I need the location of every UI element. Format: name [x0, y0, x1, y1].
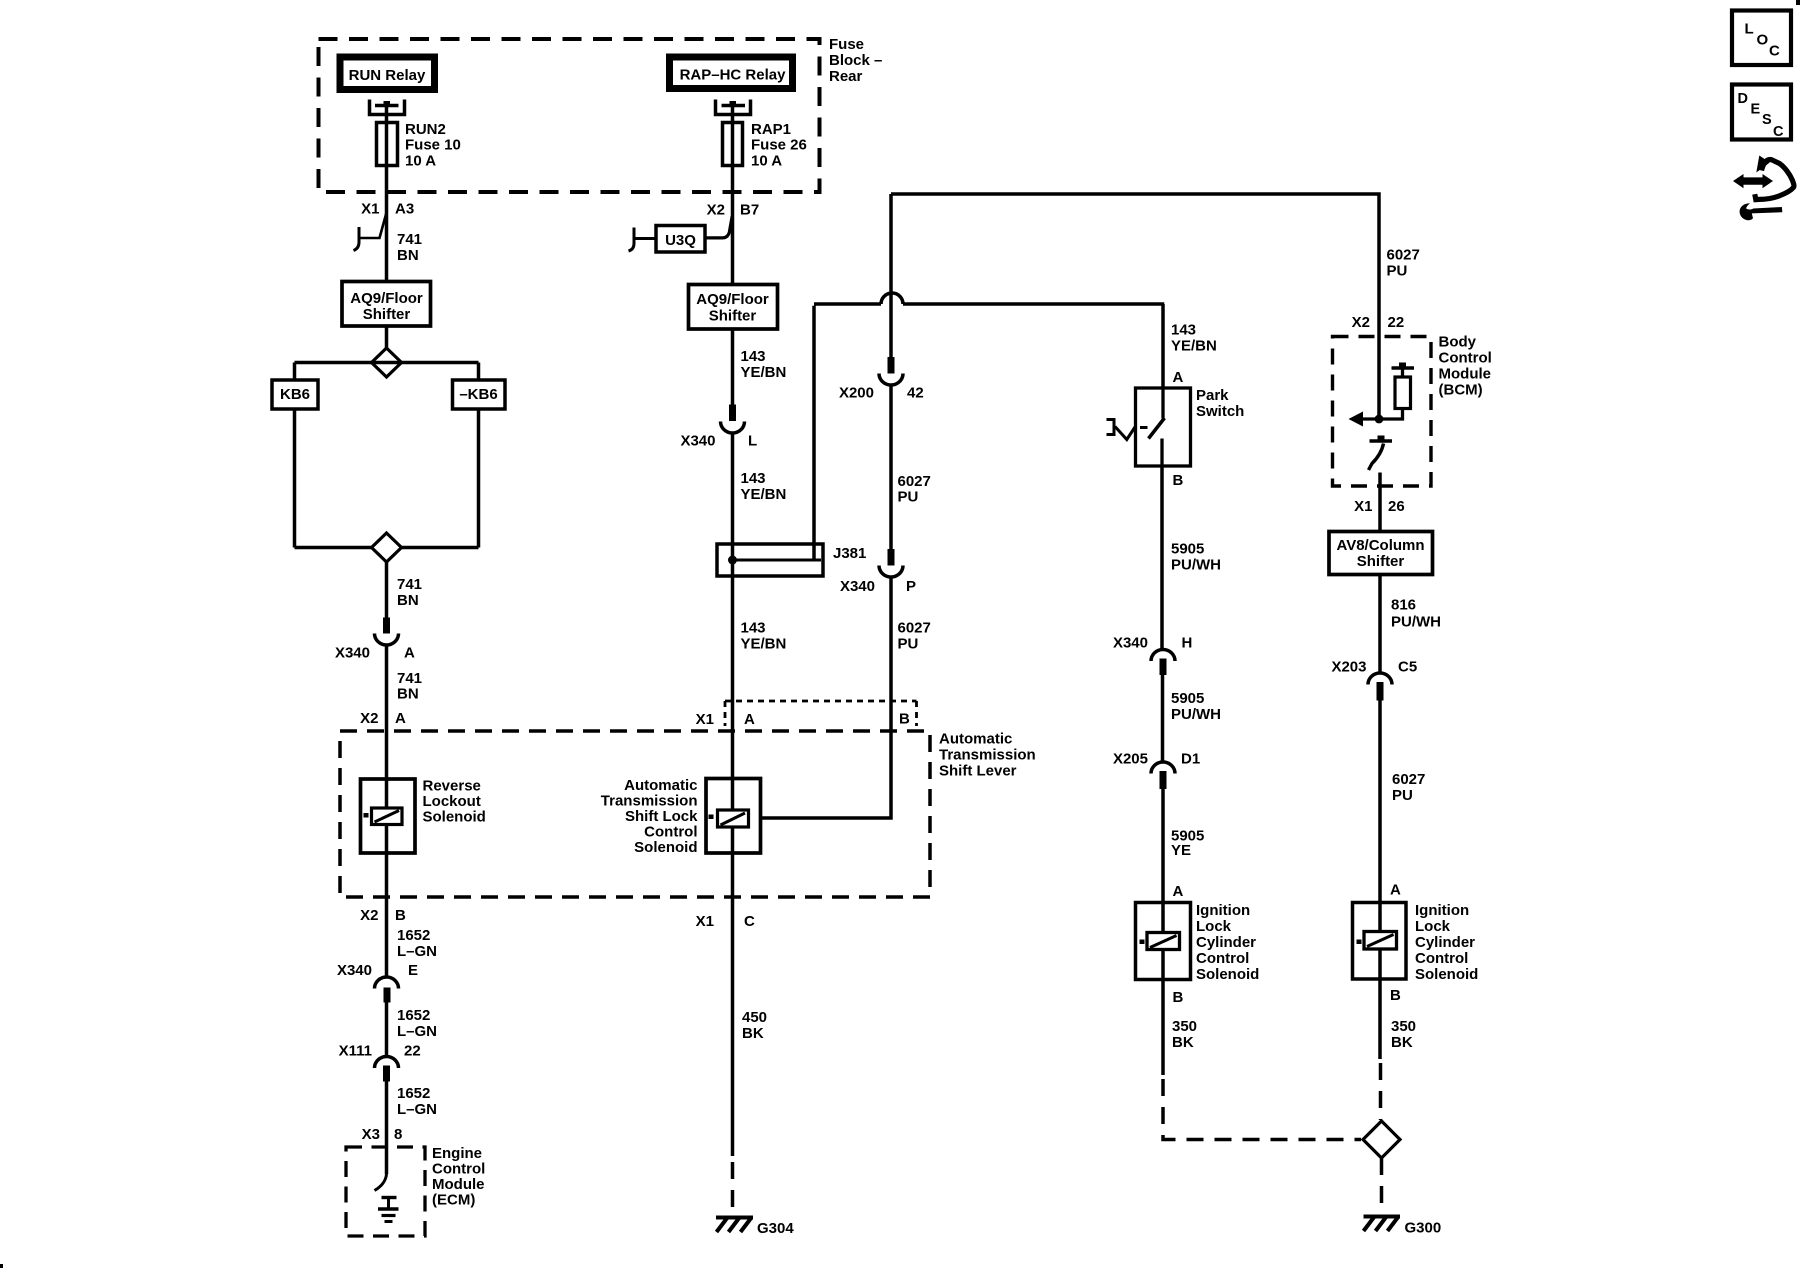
- svg-text:X340: X340: [335, 645, 370, 662]
- svg-text:350: 350: [1172, 1018, 1197, 1035]
- in-line connector stub with hook (lead off RUN2 feed): [354, 214, 387, 251]
- wire: X111 to ECM: [385, 1082, 389, 1175]
- svg-text:Engine: Engine: [432, 1145, 482, 1162]
- svg-text:Control: Control: [432, 1161, 485, 1178]
- svg-text:X340: X340: [840, 578, 875, 595]
- svg-text:B7: B7: [740, 202, 759, 219]
- in-line connector X340 pin P: [840, 549, 916, 595]
- LOC navigation icon: [1732, 11, 1791, 66]
- wire label 5905 PU/WH (lower): [1171, 690, 1221, 723]
- svg-text:C: C: [1769, 43, 1780, 60]
- svg-text:S: S: [1762, 112, 1772, 128]
- svg-text:D1: D1: [1181, 751, 1200, 768]
- wiring navigation icon (arrows and wrench): [1733, 156, 1794, 221]
- page corner marks: [1796, 0, 1800, 5]
- svg-text:X340: X340: [337, 962, 372, 979]
- wire label 741 BN (upper): [397, 231, 422, 264]
- wire label 350 BK (column): [1391, 1018, 1416, 1051]
- svg-text:O: O: [1757, 32, 1769, 49]
- svg-text:816: 816: [1391, 597, 1416, 614]
- DESC navigation icon: [1732, 85, 1791, 141]
- wire crossover hop: [881, 293, 903, 304]
- svg-text:BN: BN: [397, 686, 419, 703]
- wire label 6027 PU (BCM feed): [1387, 247, 1420, 280]
- BCM internal arrow (signal out): [1349, 412, 1380, 427]
- wire label 5905 YE: [1171, 828, 1204, 860]
- svg-text:Shifter: Shifter: [363, 306, 411, 323]
- park switch actuator linkage: [1107, 420, 1136, 440]
- svg-text:YE/BN: YE/BN: [741, 486, 787, 503]
- svg-text:PU/WH: PU/WH: [1171, 706, 1221, 723]
- svg-text:RAP–HC Relay: RAP–HC Relay: [680, 67, 787, 84]
- svg-text:E: E: [1751, 102, 1761, 118]
- svg-text:10 A: 10 A: [751, 153, 782, 170]
- connector X2 pin A labels: [360, 710, 406, 727]
- svg-text:Body: Body: [1439, 334, 1477, 351]
- svg-text:AQ9/Floor: AQ9/Floor: [350, 290, 423, 307]
- wire label 6027 PU (lower col3): [898, 620, 931, 653]
- svg-text:X2: X2: [707, 202, 725, 219]
- svg-text:350: 350: [1391, 1018, 1416, 1035]
- svg-text:A: A: [744, 711, 755, 728]
- svg-text:PU: PU: [898, 636, 919, 653]
- wire label 5905 PU/WH (upper): [1171, 541, 1221, 574]
- wire: X340 L to shift lock solenoid: [731, 433, 735, 779]
- svg-text:YE: YE: [1171, 842, 1191, 859]
- svg-text:BN: BN: [397, 247, 419, 264]
- svg-text:450: 450: [742, 1009, 767, 1026]
- svg-text:X200: X200: [839, 385, 874, 402]
- wire label 741 BN (lower): [397, 670, 422, 703]
- svg-text:143: 143: [741, 620, 766, 637]
- svg-text:Automatic: Automatic: [939, 731, 1012, 748]
- svg-text:741: 741: [397, 576, 422, 593]
- svg-text:Cylinder: Cylinder: [1196, 934, 1256, 951]
- svg-text:X2: X2: [1352, 314, 1370, 331]
- connector X2 pin B labels: [360, 907, 406, 924]
- svg-text:143: 143: [741, 470, 766, 487]
- svg-text:X111: X111: [339, 1043, 372, 1060]
- svg-text:Control: Control: [1439, 350, 1492, 367]
- wire: solenoid to ground splice (solid part): [1378, 979, 1382, 1059]
- svg-text:J381: J381: [833, 545, 866, 562]
- wire: hop to park switch corner: [903, 302, 1164, 306]
- wire label 143 YE/BN (park switch): [1171, 322, 1217, 355]
- svg-text:Shifter: Shifter: [1357, 553, 1405, 570]
- svg-text:A: A: [1390, 882, 1401, 899]
- svg-text:U3Q: U3Q: [665, 232, 696, 249]
- wire: solenoid to ground splice (solid part): [1161, 980, 1165, 1076]
- svg-text:X340: X340: [680, 433, 715, 450]
- svg-text:(BCM): (BCM): [1439, 382, 1483, 399]
- relay socket pin symbol (RAP-HC relay output): [716, 100, 751, 115]
- svg-text:22: 22: [1388, 314, 1405, 331]
- svg-text:X1: X1: [696, 711, 714, 728]
- wire: X340 E to X111: [385, 1002, 389, 1058]
- fuse RAP1 Fuse 26 10 A: [723, 121, 807, 170]
- ECM internal lead (curved): [375, 1174, 387, 1191]
- wire: top feed to BCM (column 5 trunk): [891, 194, 1379, 418]
- svg-text:Transmission: Transmission: [601, 793, 698, 810]
- svg-text:BK: BK: [1391, 1034, 1413, 1051]
- svg-text:Switch: Switch: [1196, 403, 1244, 420]
- svg-text:P: P: [906, 578, 916, 595]
- svg-text:X1: X1: [361, 201, 379, 218]
- svg-text:YE/BN: YE/BN: [741, 636, 787, 653]
- connector AV8/Column Shifter: [1329, 532, 1433, 575]
- in-line connector X340 pin H: [1113, 635, 1192, 676]
- wire label 1652 L-GN (upper): [397, 927, 437, 960]
- in-line connector X340 pin L: [680, 405, 757, 450]
- wire: right branch to -KB6: [477, 363, 481, 381]
- wire: X340 H to X205: [1161, 675, 1165, 763]
- BCM internal switch: [1369, 436, 1393, 471]
- svg-text:X340: X340: [1113, 635, 1148, 652]
- svg-text:26: 26: [1388, 498, 1405, 515]
- option box -KB6: [453, 380, 506, 409]
- svg-text:6027: 6027: [898, 473, 931, 490]
- BCM internal sensing element (resistor): [1379, 363, 1414, 420]
- switch: Park Switch: [1136, 387, 1245, 466]
- connector U3Q stub: [629, 216, 733, 252]
- svg-text:X3: X3: [362, 1126, 380, 1143]
- svg-text:C: C: [744, 913, 755, 930]
- wire: park switch feed (column 4 trunk upper): [1161, 304, 1165, 419]
- wire: branch bus lower: [295, 546, 479, 550]
- ground splice diamond: [1363, 1121, 1400, 1158]
- wire label 143 YE/BN (upper): [741, 348, 787, 381]
- wire: branch bus upper: [295, 361, 479, 365]
- ECM dashed box: [346, 1145, 485, 1236]
- connector AQ9/Floor Shifter (column 1): [342, 282, 431, 327]
- module: Body Control Module (BCM) dashed box: [1333, 334, 1492, 487]
- svg-text:Ignition: Ignition: [1415, 902, 1469, 919]
- svg-text:5905: 5905: [1171, 690, 1204, 707]
- wire label 1652 L-GN (lower): [397, 1085, 437, 1118]
- svg-text:B: B: [1173, 472, 1184, 489]
- wire label 143 YE/BN (middle): [741, 470, 787, 503]
- connector X3 pin 8 labels: [362, 1126, 403, 1143]
- svg-text:Control: Control: [644, 824, 697, 841]
- in-line connector X203 pin C5: [1331, 659, 1417, 701]
- wire: dashed drop to G304: [731, 1162, 735, 1215]
- wire: diamond to X340 connector: [385, 562, 389, 618]
- svg-text:PU: PU: [898, 489, 919, 506]
- svg-text:Cylinder: Cylinder: [1415, 934, 1475, 951]
- svg-text:42: 42: [907, 385, 924, 402]
- svg-text:Control: Control: [1415, 950, 1468, 967]
- svg-text:Control: Control: [1196, 950, 1249, 967]
- fuse block - rear dashed box: [319, 36, 883, 192]
- svg-text:Lockout: Lockout: [423, 793, 481, 810]
- relay RUN Relay: [340, 57, 435, 90]
- svg-text:1652: 1652: [397, 927, 430, 944]
- svg-text:A: A: [1173, 883, 1184, 900]
- wire label 1652 L-GN (middle): [397, 1007, 437, 1040]
- svg-text:6027: 6027: [1392, 771, 1425, 788]
- wire label 6027 PU (upper col3): [898, 473, 931, 506]
- wire: X200 to X340 P: [889, 385, 893, 550]
- svg-text:143: 143: [741, 348, 766, 365]
- svg-text:Solenoid: Solenoid: [634, 839, 697, 856]
- svg-text:A: A: [1173, 369, 1184, 386]
- svg-text:A: A: [395, 710, 406, 727]
- svg-text:AQ9/Floor: AQ9/Floor: [696, 291, 769, 308]
- svg-text:X2: X2: [360, 907, 378, 924]
- svg-text:B: B: [1173, 989, 1184, 1006]
- svg-text:6027: 6027: [1387, 247, 1420, 264]
- wire label 450 BK: [742, 1009, 767, 1042]
- svg-text:RAP1: RAP1: [751, 121, 791, 138]
- solenoid: Reverse Lockout Solenoid: [361, 778, 486, 854]
- automatic transmission shift lever assembly dashed box: [340, 731, 1036, 898]
- svg-text:A3: A3: [395, 201, 414, 218]
- connector X2 pin 22 labels (BCM): [1352, 314, 1405, 331]
- svg-text:1652: 1652: [397, 1007, 430, 1024]
- svg-text:Ignition: Ignition: [1196, 902, 1250, 919]
- svg-text:X2: X2: [360, 710, 378, 727]
- wire: X203 to ignition lock solenoid (column): [1378, 701, 1382, 903]
- svg-text:Solenoid: Solenoid: [423, 809, 486, 826]
- svg-text:Automatic: Automatic: [624, 777, 697, 794]
- svg-text:Fuse 26: Fuse 26: [751, 137, 807, 154]
- in-line connector X340 pin A: [335, 618, 415, 662]
- connector X1 pin A3 labels: [361, 201, 414, 218]
- wire: dashed run to ground splice diamond: [1163, 1079, 1361, 1140]
- option box KB6: [272, 380, 318, 409]
- svg-text:741: 741: [397, 670, 422, 687]
- wire: J381 branch up and over to park switch: [814, 304, 881, 560]
- svg-text:Solenoid: Solenoid: [1415, 966, 1478, 983]
- svg-text:BN: BN: [397, 592, 419, 609]
- in-line connector X200 pin 42: [839, 357, 924, 402]
- svg-text:PU: PU: [1392, 787, 1413, 804]
- svg-text:E: E: [408, 962, 418, 979]
- svg-text:10 A: 10 A: [405, 153, 436, 170]
- wire: X340 P down and into solenoid: [761, 577, 892, 818]
- svg-text:B: B: [1390, 987, 1401, 1004]
- svg-text:YE/BN: YE/BN: [1171, 338, 1217, 355]
- solenoid: Ignition Lock Cylinder Control Solenoid (column shift): [1353, 902, 1479, 983]
- wire: AV8 to X203: [1378, 575, 1382, 673]
- svg-text:G300: G300: [1405, 1220, 1442, 1237]
- wire label 741 BN (middle): [397, 576, 422, 609]
- svg-text:AV8/Column: AV8/Column: [1336, 537, 1424, 554]
- svg-text:143: 143: [1171, 322, 1196, 339]
- connector X1 pin C labels: [696, 913, 755, 930]
- svg-text:741: 741: [397, 231, 422, 248]
- splice J381: [717, 544, 866, 576]
- svg-text:Rear: Rear: [829, 68, 863, 85]
- wire: left branch to KB6: [293, 363, 297, 381]
- solenoid: Ignition Lock Cylinder Control Solenoid (floor shift): [1136, 902, 1260, 983]
- svg-text:8: 8: [394, 1126, 402, 1143]
- svg-text:BK: BK: [1172, 1034, 1194, 1051]
- svg-text:Lock: Lock: [1415, 918, 1451, 935]
- svg-text:Module: Module: [1439, 366, 1492, 383]
- svg-text:Module: Module: [432, 1176, 485, 1193]
- wire: X340 to solenoid box: [385, 645, 389, 779]
- in-line connector X1 (dotted) pins A / B: [696, 701, 917, 728]
- relay socket pin symbol (RUN relay output): [370, 100, 405, 115]
- in-line connector X205 pin D1: [1113, 751, 1200, 790]
- wire label 350 BK (floor): [1172, 1018, 1197, 1051]
- svg-text:Shift Lever: Shift Lever: [939, 763, 1017, 780]
- svg-text:–KB6: –KB6: [459, 386, 497, 403]
- splice diamond (bottom): [372, 533, 402, 562]
- svg-text:Fuse 10: Fuse 10: [405, 137, 461, 154]
- svg-text:C: C: [1773, 124, 1784, 140]
- svg-text:Solenoid: Solenoid: [1196, 966, 1259, 983]
- ground G300: [1364, 1217, 1442, 1237]
- svg-text:D: D: [1738, 91, 1748, 107]
- wire: dashed drop diamond to G300: [1380, 1158, 1384, 1214]
- wire label 816 PU/WH: [1391, 597, 1441, 631]
- svg-text:1652: 1652: [397, 1085, 430, 1102]
- svg-text:L: L: [748, 433, 757, 450]
- ground (ECM internal): [378, 1198, 399, 1222]
- svg-text:G304: G304: [757, 1220, 794, 1237]
- ground G304: [716, 1218, 794, 1238]
- fuse RUN2 Fuse 10 10 A: [377, 121, 461, 170]
- svg-text:PU/WH: PU/WH: [1171, 557, 1221, 574]
- svg-text:L–GN: L–GN: [397, 1101, 437, 1118]
- svg-text:Fuse: Fuse: [829, 36, 864, 53]
- wire: RAP-HC relay to shift lock solenoid (column 2 trunk, upper): [731, 107, 735, 405]
- svg-text:Reverse: Reverse: [423, 778, 481, 795]
- svg-text:Shifter: Shifter: [709, 308, 757, 325]
- svg-text:Park: Park: [1196, 387, 1229, 404]
- wire: BCM switch to AV8 box: [1378, 473, 1382, 532]
- wire: solenoid to G304: [731, 853, 735, 1156]
- svg-text:RUN Relay: RUN Relay: [349, 67, 426, 84]
- svg-text:Transmission: Transmission: [939, 747, 1036, 764]
- svg-text:C5: C5: [1398, 659, 1417, 676]
- connector X2 pin B7 labels: [707, 202, 760, 219]
- svg-text:22: 22: [404, 1043, 421, 1060]
- svg-text:X203: X203: [1331, 659, 1366, 676]
- svg-text:L–GN: L–GN: [397, 1023, 437, 1040]
- svg-text:X1: X1: [696, 913, 714, 930]
- svg-text:A: A: [404, 645, 415, 662]
- solenoid: Automatic Transmission Shift Lock Control Solenoid: [601, 777, 761, 856]
- wire label 6027 PU (column solenoid): [1392, 771, 1425, 804]
- svg-text:X205: X205: [1113, 751, 1148, 768]
- wire label 143 YE/BN (lower): [741, 620, 787, 653]
- svg-text:Block –: Block –: [829, 52, 882, 69]
- wire: solenoid to X340 pin E: [385, 853, 389, 978]
- svg-text:Shift Lock: Shift Lock: [625, 808, 698, 825]
- svg-text:YE/BN: YE/BN: [741, 364, 787, 381]
- connector AQ9/Floor Shifter (column 2): [689, 285, 778, 330]
- wire: RUN relay to reverse lockout solenoid (column 1 trunk): [385, 107, 389, 348]
- svg-text:H: H: [1182, 635, 1193, 652]
- svg-text:BK: BK: [742, 1025, 764, 1042]
- svg-text:5905: 5905: [1171, 541, 1204, 558]
- svg-text:B: B: [899, 711, 910, 728]
- svg-text:6027: 6027: [898, 620, 931, 637]
- in-line connector X111 pin 22: [339, 1043, 421, 1082]
- wire: KB6 down: [293, 409, 297, 548]
- splice diamond (top): [372, 348, 402, 377]
- wire: solenoid B pin feed (column 3 trunk): [889, 194, 893, 358]
- in-line connector X340 pin E: [337, 962, 418, 1003]
- svg-text:PU: PU: [1387, 263, 1408, 280]
- svg-text:PU/WH: PU/WH: [1391, 614, 1441, 631]
- connector X1 pin 26 labels (BCM): [1354, 498, 1405, 515]
- svg-text:(ECM): (ECM): [432, 1192, 475, 1209]
- wire: -KB6 down: [477, 409, 481, 548]
- BCM internal node junction: [1375, 415, 1384, 424]
- wire: X205 to ignition lock solenoid: [1161, 789, 1165, 903]
- wire: dashed drop to ground splice diamond: [1379, 1063, 1383, 1120]
- svg-text:L–GN: L–GN: [397, 943, 437, 960]
- svg-text:L: L: [1745, 21, 1754, 38]
- svg-text:X1: X1: [1354, 498, 1372, 515]
- svg-text:KB6: KB6: [280, 386, 310, 403]
- relay RAP-HC Relay: [670, 57, 793, 89]
- wire: park switch to X340 H: [1160, 466, 1164, 650]
- svg-text:RUN2: RUN2: [405, 121, 446, 138]
- svg-text:B: B: [395, 907, 406, 924]
- svg-text:Lock: Lock: [1196, 918, 1232, 935]
